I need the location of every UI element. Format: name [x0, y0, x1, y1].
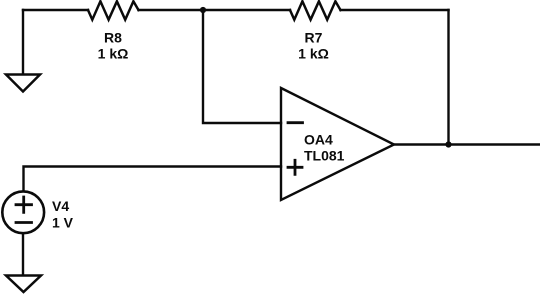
- V4 minus sign: [16, 221, 32, 224]
- wire: V4 top up and right to non-inverting input: [24, 167, 282, 191]
- node A (top junction dot): [200, 7, 206, 13]
- wire: R8 to node A: [139, 9, 204, 11]
- wire: V4 bottom down to ground: [22, 234, 24, 275]
- node B (output junction dot): [445, 141, 451, 147]
- wire: node A down and right to inverting input: [203, 10, 281, 123]
- V4 plus sign: [16, 197, 32, 212]
- resistor R8: [88, 1, 139, 19]
- wire: op-amp output to right edge: [394, 143, 540, 145]
- wire: top-left horizontal, ground lead to R8: [23, 9, 88, 11]
- wire: R7 to feedback corner: [341, 9, 449, 11]
- voltage source V4 circle: [2, 191, 44, 233]
- op-amp inverting pin minus sign: [288, 121, 303, 124]
- resistor R7: [290, 1, 341, 19]
- op-amp OA4 triangle: [281, 88, 394, 200]
- svg-text:V4: V4: [52, 198, 69, 214]
- svg-text:OA4: OA4: [304, 132, 333, 148]
- wire: feedback vertical down to output node: [447, 10, 449, 145]
- ground (bottom, for V4): [6, 276, 41, 293]
- op-amp non-inverting pin plus sign: [288, 160, 302, 174]
- svg-text:1 kΩ: 1 kΩ: [98, 45, 129, 61]
- wire: node A to R7: [203, 9, 290, 11]
- wire: left vertical down to ground: [22, 10, 24, 74]
- svg-text:1 kΩ: 1 kΩ: [298, 45, 329, 61]
- svg-text:R8: R8: [104, 30, 122, 46]
- svg-text:TL081: TL081: [304, 148, 345, 164]
- ground (top left): [6, 75, 40, 92]
- svg-text:R7: R7: [305, 30, 323, 46]
- svg-text:1 V: 1 V: [52, 214, 74, 230]
